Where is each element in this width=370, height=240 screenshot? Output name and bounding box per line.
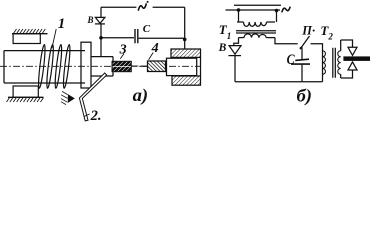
svg-text:T2: T2 (320, 23, 333, 42)
svg-text:4: 4 (151, 41, 159, 56)
svg-text:С: С (143, 23, 151, 35)
svg-text:С: С (287, 51, 296, 68)
svg-text:П·: П· (301, 23, 315, 37)
svg-text:б): б) (297, 86, 313, 107)
svg-text:1: 1 (58, 16, 66, 32)
svg-text:2.: 2. (90, 108, 102, 124)
svg-text:В: В (87, 15, 94, 25)
svg-text:В: В (218, 42, 227, 54)
svg-text:T1: T1 (219, 22, 231, 41)
svg-text:а): а) (133, 85, 149, 106)
svg-text:3: 3 (119, 42, 127, 57)
